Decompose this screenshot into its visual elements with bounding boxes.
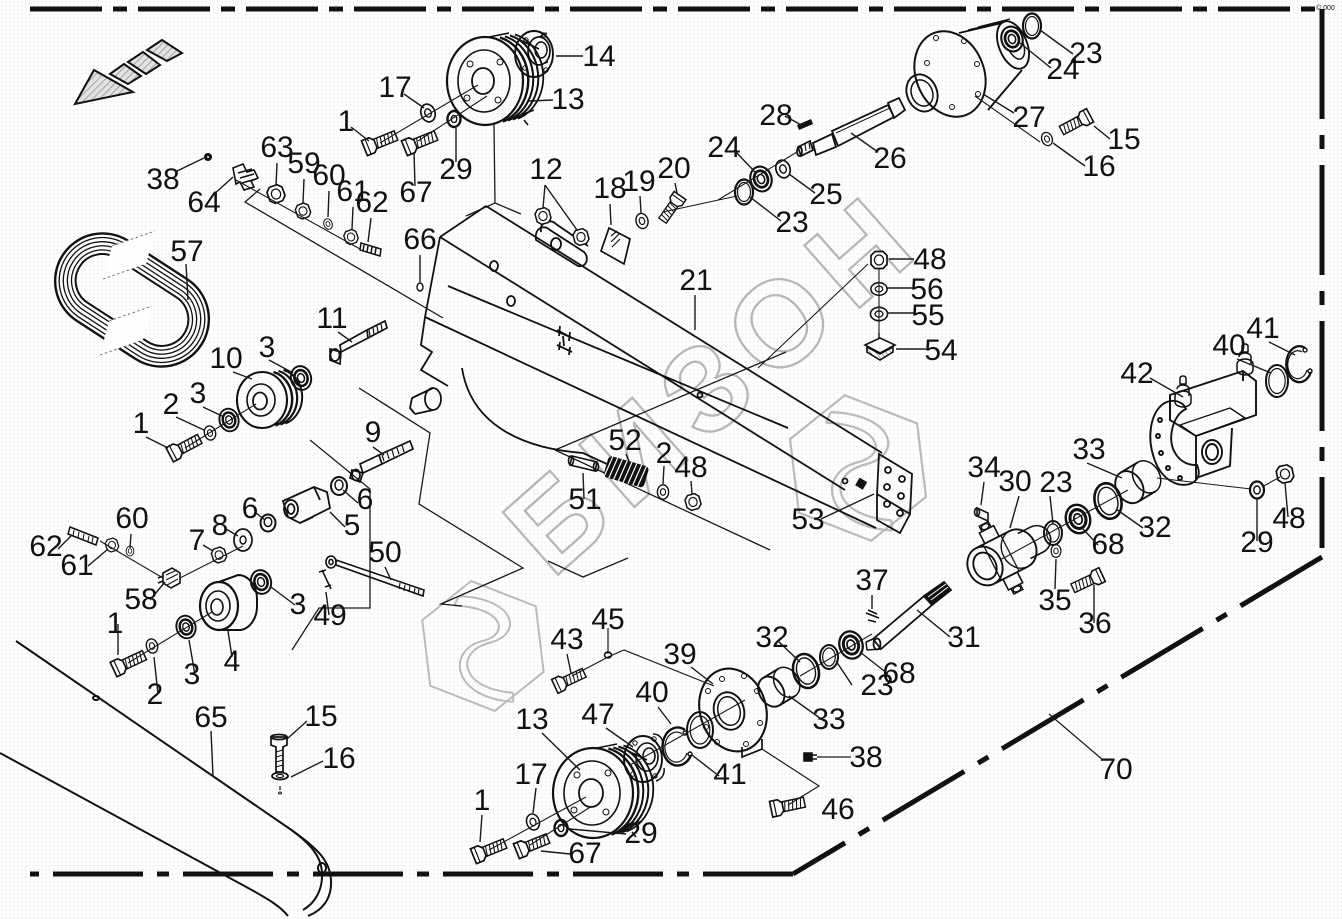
svg-text:49: 49 — [313, 599, 346, 632]
top dash-dot border — [30, 7, 1320, 12]
svg-text:31: 31 — [947, 621, 980, 654]
bosses — [1175, 376, 1191, 407]
nut 48 column — [871, 252, 887, 269]
svg-text:3: 3 — [190, 377, 207, 410]
shaft 11 — [330, 321, 387, 364]
pulley 13 bottom — [553, 744, 653, 838]
axis 30 chain — [1000, 490, 1128, 560]
pivot stub left — [425, 388, 441, 410]
washer 19 — [634, 212, 649, 230]
washer 29 top — [448, 111, 461, 127]
svg-text:34: 34 — [967, 451, 1000, 484]
shaft 31 — [866, 582, 951, 650]
ring 23 right — [1023, 14, 1041, 39]
svg-text:47: 47 — [581, 698, 614, 731]
key 28 — [797, 119, 813, 130]
washer 6 left — [261, 515, 276, 532]
svg-text:55: 55 — [911, 299, 944, 332]
bolt 20 — [657, 191, 686, 224]
svg-text:3: 3 — [184, 658, 201, 691]
axis 31 chain — [800, 634, 872, 676]
screw 49 — [319, 570, 331, 589]
hub 27 — [901, 17, 1035, 128]
svg-text:48: 48 — [674, 451, 707, 484]
svg-text:25: 25 — [809, 178, 842, 211]
svg-text:38: 38 — [146, 163, 179, 196]
diagonal dash-dot border 70 — [793, 557, 1322, 874]
bracket 42 — [1150, 344, 1256, 485]
bearing 68 right — [1062, 502, 1094, 537]
svg-text:70: 70 — [1099, 753, 1132, 786]
svg-text:24: 24 — [707, 131, 740, 164]
svg-text:8: 8 — [212, 509, 229, 542]
nut 48 spring — [684, 493, 702, 512]
plate 18 — [601, 228, 630, 264]
hub 47 — [624, 734, 664, 782]
svg-text:1: 1 — [107, 607, 124, 640]
svg-text:16: 16 — [322, 742, 355, 775]
washer 2 bottom — [145, 638, 160, 655]
flange 39 — [690, 661, 777, 760]
ring 23 left — [735, 180, 753, 205]
bolt 15 right — [1058, 109, 1094, 138]
nut 61 — [343, 228, 360, 245]
svg-text:40: 40 — [635, 676, 668, 709]
bearing 3 near roller right — [248, 568, 274, 596]
svg-text:38: 38 — [849, 741, 882, 774]
svg-text:2: 2 — [163, 388, 180, 421]
svg-text:36: 36 — [1078, 607, 1111, 640]
svg-text:13: 13 — [551, 83, 584, 116]
washer 6 right — [331, 477, 347, 495]
bolt 1 mid-left — [166, 432, 204, 462]
nuts 12 — [534, 207, 552, 226]
washer 16 bottom — [272, 773, 288, 795]
pin 62 — [360, 243, 381, 256]
svg-text:64: 64 — [187, 186, 220, 219]
right vertical dash border — [1320, 9, 1325, 548]
svg-text:17: 17 — [378, 71, 411, 104]
end plate 53 area — [877, 454, 912, 514]
shaft 9 — [350, 441, 413, 482]
ring 40 right — [1266, 365, 1288, 397]
svg-text:26: 26 — [873, 142, 906, 175]
fitting 38 bottom — [804, 753, 817, 761]
svg-text:1: 1 — [133, 407, 150, 440]
svg-text:4: 4 — [224, 645, 241, 678]
svg-text:27: 27 — [1012, 101, 1045, 134]
pin 45 — [605, 652, 612, 658]
svg-text:37: 37 — [855, 564, 888, 597]
svg-text:2: 2 — [147, 678, 164, 711]
svg-text:5: 5 — [344, 509, 361, 542]
svg-text:30: 30 — [998, 465, 1031, 498]
svg-text:40: 40 — [1212, 329, 1245, 362]
svg-text:48: 48 — [913, 243, 946, 276]
bottom dash-dot border — [30, 872, 793, 877]
circlip 41 bottom — [663, 728, 692, 766]
bolt 1 top — [361, 128, 399, 156]
svg-text:66: 66 — [403, 223, 436, 256]
svg-text:43: 43 — [550, 623, 583, 656]
svg-text:2: 2 — [656, 437, 673, 470]
pulley 10 — [237, 370, 302, 428]
svg-text:16: 16 — [1082, 150, 1115, 183]
bolt 46 — [769, 794, 806, 817]
bolt 67 top — [401, 128, 439, 156]
svg-text:24: 24 — [1046, 53, 1079, 86]
svg-text:1: 1 — [338, 105, 355, 138]
washer 35 — [1051, 545, 1061, 558]
washer 17 bottom — [525, 812, 542, 831]
svg-text:17: 17 — [514, 758, 547, 791]
svg-text:39: 39 — [663, 638, 696, 671]
svg-text:67: 67 — [399, 176, 432, 209]
pin 51 — [569, 456, 599, 471]
grease dot 38 — [204, 153, 212, 161]
svg-text:© 000: © 000 — [1316, 4, 1335, 12]
svg-text:7: 7 — [189, 524, 206, 557]
belt break marks — [100, 231, 155, 355]
svg-text:32: 32 — [755, 621, 788, 654]
svg-text:9: 9 — [365, 416, 382, 449]
svg-text:28: 28 — [759, 99, 792, 132]
bearing 24 left — [747, 164, 775, 194]
pulley 13 top — [447, 33, 543, 125]
svg-text:6: 6 — [242, 492, 259, 525]
bolt 1 bottom — [470, 836, 508, 864]
svg-text:15: 15 — [304, 700, 337, 733]
gusset curve — [462, 368, 620, 470]
svg-text:57: 57 — [170, 235, 203, 268]
svg-text:67: 67 — [568, 837, 601, 870]
axis bottom pulley — [489, 797, 592, 850]
bearing 68 left (31) — [836, 628, 866, 661]
bolt 36 — [1070, 568, 1106, 595]
ring 40 bottom — [687, 712, 713, 748]
leader bracket-29-48 — [1157, 477, 1280, 489]
ring 23 right (30) — [1044, 521, 1062, 545]
svg-text:42: 42 — [1120, 357, 1153, 390]
svg-text:62: 62 — [29, 530, 62, 563]
watermark logo small — [411, 575, 555, 717]
washer 29 right — [1250, 482, 1264, 499]
rod 50 — [326, 556, 424, 596]
svg-text:45: 45 — [591, 603, 624, 636]
washer 16 right — [1040, 131, 1054, 147]
watermark logo big — [778, 389, 939, 548]
axis line 1-2-3-10 — [185, 404, 256, 448]
svg-text:3: 3 — [290, 588, 307, 621]
bolt 15 bottom — [271, 735, 287, 773]
svg-text:51: 51 — [568, 483, 601, 516]
pivot tube 5 — [283, 487, 330, 523]
washer 2 — [203, 425, 218, 442]
bore — [1202, 440, 1222, 464]
bushing 33 left — [753, 662, 805, 711]
svg-text:23: 23 — [775, 206, 808, 239]
svg-text:13: 13 — [515, 703, 548, 736]
elbow fitting 58 — [158, 568, 180, 588]
bolt 67 bottom — [513, 831, 551, 859]
svg-text:58: 58 — [124, 583, 157, 616]
svg-text:46: 46 — [821, 793, 854, 826]
svg-text:14: 14 — [582, 40, 615, 73]
oring 32 right — [1091, 480, 1126, 522]
svg-text:60: 60 — [115, 502, 148, 535]
column line — [758, 264, 879, 368]
shaft 26 — [797, 98, 905, 156]
pin 62 bottom — [68, 527, 98, 545]
flange hub 14 — [515, 31, 553, 77]
spring 52 — [603, 455, 649, 488]
bearing 3 near roller left — [174, 614, 198, 641]
leader hub to 16 — [975, 96, 1040, 142]
svg-text:33: 33 — [812, 703, 845, 736]
nut 61 bottom — [104, 537, 119, 553]
ring 23 (31) — [820, 645, 838, 669]
axis 1-2-3-4 — [128, 612, 212, 663]
circlip 41 right — [1286, 346, 1312, 382]
bolt 1 bottom-left — [110, 648, 148, 677]
washer 25 — [774, 158, 793, 179]
axis 64..62 — [236, 180, 360, 249]
watermark text — [479, 173, 936, 600]
svg-text:1: 1 — [474, 784, 491, 817]
roller 4 — [200, 575, 257, 630]
svg-text:33: 33 — [1072, 433, 1105, 466]
pillow block 30 — [953, 499, 1067, 607]
small holes on frame — [490, 261, 498, 271]
svg-text:10: 10 — [209, 342, 242, 375]
svg-text:50: 50 — [368, 536, 401, 569]
svg-text:29: 29 — [624, 817, 657, 850]
svg-text:68: 68 — [1091, 528, 1124, 561]
washer 55 — [870, 307, 887, 320]
bearing 3 mid — [217, 407, 241, 434]
washer 60 — [322, 217, 334, 230]
nut 59 — [294, 202, 312, 220]
washer 8 — [234, 529, 252, 551]
svg-text:53: 53 — [791, 503, 824, 536]
pin 37 — [866, 610, 879, 622]
svg-text:12: 12 — [529, 153, 562, 186]
bearing 24 right — [998, 24, 1026, 54]
oring 32 left — [789, 651, 822, 691]
svg-text:54: 54 — [924, 334, 957, 367]
axis lines top pulley — [380, 85, 487, 143]
svg-text:62: 62 — [355, 186, 388, 219]
svg-text:41: 41 — [713, 758, 746, 791]
svg-text:20: 20 — [657, 152, 690, 185]
leader network bottom right — [572, 628, 1103, 805]
nut 60 bottom — [126, 546, 134, 556]
svg-text:23: 23 — [1039, 466, 1072, 499]
svg-text:65: 65 — [194, 701, 227, 734]
small cyl 34 — [975, 508, 989, 521]
svg-text:41: 41 — [1246, 312, 1279, 345]
clevis bracket — [536, 227, 587, 266]
svg-text:19: 19 — [622, 165, 655, 198]
crescent flange — [1150, 401, 1198, 485]
bushing 33 right — [1110, 456, 1167, 509]
svg-text:3: 3 — [259, 331, 276, 364]
svg-text:52: 52 — [608, 424, 641, 457]
nut 7 — [210, 546, 227, 564]
washer 29 bottom — [555, 820, 568, 836]
axis 62-58 — [100, 541, 243, 578]
nut 63 — [266, 183, 287, 204]
T anchor — [557, 326, 572, 355]
bearing 3 right of pulley 10 — [288, 364, 314, 392]
axis 20-23-24-26 — [663, 152, 797, 212]
fitting 64 — [233, 164, 258, 190]
pad 54 — [865, 333, 895, 360]
axis 47-39 — [630, 700, 745, 765]
washer 17 top — [419, 102, 438, 123]
svg-text:48: 48 — [1272, 502, 1305, 535]
bolt 43 — [552, 666, 588, 693]
svg-text:11: 11 — [316, 302, 347, 335]
nut 48 right — [1275, 464, 1294, 484]
svg-text:21: 21 — [679, 264, 712, 297]
pin 66 — [417, 283, 423, 291]
washer 56 — [871, 283, 887, 296]
washer 2 spring — [657, 485, 668, 499]
